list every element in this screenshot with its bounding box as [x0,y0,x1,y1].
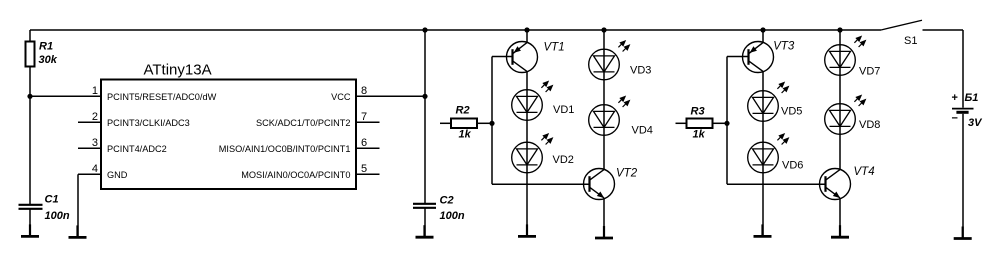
svg-text:VD3: VD3 [630,65,651,77]
svg-text:MOSI/AIN0/OC0A/PCINT0: MOSI/AIN0/OC0A/PCINT0 [241,170,350,180]
svg-text:4: 4 [92,163,98,175]
svg-text:VD2: VD2 [553,154,574,166]
svg-text:2: 2 [92,111,98,123]
svg-text:7: 7 [361,111,367,123]
svg-text:PCINT5/RESET/ADC0/dW: PCINT5/RESET/ADC0/dW [107,92,217,102]
svg-text:C2: C2 [440,195,454,207]
svg-text:VD7: VD7 [859,66,880,78]
svg-text:PCINT3/CLKI/ADC3: PCINT3/CLKI/ADC3 [107,118,190,128]
svg-text:R3: R3 [691,106,705,118]
svg-text:−: − [952,112,958,124]
svg-text:100n: 100n [440,210,465,222]
svg-text:VCC: VCC [331,92,351,102]
svg-text:VD8: VD8 [859,119,880,131]
svg-text:R2: R2 [456,105,470,117]
svg-text:VD1: VD1 [553,104,574,116]
svg-text:VT2: VT2 [616,167,638,179]
svg-text:VD4: VD4 [632,125,653,137]
svg-text:ATtiny13A: ATtiny13A [144,62,212,79]
svg-text:+: + [952,92,958,104]
svg-text:6: 6 [361,137,367,149]
svg-text:1k: 1k [693,129,706,141]
svg-text:SCK/ADC1/T0/PCINT2: SCK/ADC1/T0/PCINT2 [256,118,350,128]
svg-text:VT4: VT4 [854,166,875,178]
svg-text:PCINT4/ADC2: PCINT4/ADC2 [107,144,167,154]
svg-text:5: 5 [361,163,367,175]
svg-text:3: 3 [92,137,98,149]
svg-text:VD6: VD6 [782,160,803,172]
svg-text:R1: R1 [39,41,53,53]
svg-text:1k: 1k [459,129,472,141]
svg-text:GND: GND [107,170,128,180]
svg-text:8: 8 [361,85,367,97]
svg-text:VD5: VD5 [781,106,802,118]
svg-text:MISO/AIN1/OC0B/INT0/PCINT1: MISO/AIN1/OC0B/INT0/PCINT1 [219,144,351,154]
svg-text:S1: S1 [904,35,917,47]
svg-text:3V: 3V [968,117,983,129]
svg-text:30k: 30k [39,54,58,66]
svg-text:Б1: Б1 [965,92,979,104]
svg-text:1: 1 [92,85,98,97]
svg-text:VT1: VT1 [544,41,565,53]
svg-text:100n: 100n [45,210,70,222]
svg-text:C1: C1 [45,194,59,206]
svg-text:VT3: VT3 [773,40,795,52]
